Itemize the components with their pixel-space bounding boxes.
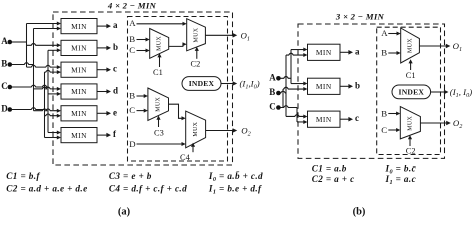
svg-text:A: A <box>129 18 136 28</box>
output wire d <box>97 89 111 94</box>
select line C2 <box>195 47 199 59</box>
wire MUX C3 out to MUX C4 <box>169 104 186 120</box>
svg-text:MIN: MIN <box>71 87 87 96</box>
MIN block 2 (a) <box>61 40 97 55</box>
riser C down (b) <box>296 108 298 122</box>
svg-text:INDEX: INDEX <box>399 88 425 97</box>
svg-text:a: a <box>355 46 360 56</box>
mux U2 (b) select C2 <box>400 107 420 139</box>
svg-text:D: D <box>1 104 8 114</box>
riser A <box>26 24 28 68</box>
svg-text:4 × 2 − MIN: 4 × 2 − MIN <box>107 1 157 11</box>
svg-text:C4 = d.f + c.f + c.d: C4 = d.f + c.f + c.d <box>109 184 187 194</box>
svg-text:C: C <box>1 81 8 91</box>
MIN block 4 (a) <box>61 84 97 99</box>
svg-text:MIN: MIN <box>316 48 332 57</box>
output wire a (b) <box>340 50 353 55</box>
wire B to MUX C2 (b) <box>388 112 400 116</box>
input terminal dot A (a) <box>8 40 13 45</box>
svg-text:(b): (b) <box>353 206 366 217</box>
input terminal dot D (a) <box>8 107 13 112</box>
MIN block 6 (a) <box>61 128 97 143</box>
svg-text:d: d <box>113 86 118 96</box>
wire input D (a) <box>12 108 45 110</box>
wire A to MUX C1 (b) <box>388 32 400 36</box>
wire stub to MIN input y=83.55 (b) <box>291 82 308 86</box>
MIN block 5 (a) <box>61 106 97 121</box>
wire stub to MIN input y=28.5 <box>34 27 62 31</box>
MIN block 3 (a) <box>61 62 97 77</box>
svg-text:C1: C1 <box>153 68 163 77</box>
wire stub to MIN input y=121.95 (b) <box>297 120 308 124</box>
wire C to MUX C3 <box>137 109 148 113</box>
wire input C (a) <box>12 85 49 87</box>
wire stub to MIN input y=93.9 <box>48 92 61 96</box>
wire stub to MIN input y=50.3 <box>48 48 61 52</box>
svg-text:B: B <box>381 109 387 119</box>
svg-text:MUX: MUX <box>193 121 199 136</box>
riser B <box>33 29 35 111</box>
inner dashed box (b) <box>377 27 441 154</box>
riser B (b) <box>285 55 287 116</box>
svg-text:C: C <box>129 105 135 115</box>
svg-text:MUX: MUX <box>156 96 162 111</box>
output wire c (b) <box>340 117 353 122</box>
riser C up (b) <box>282 89 284 107</box>
svg-text:c: c <box>355 113 359 123</box>
wire stub to MIN input y=116.45 (b) <box>286 114 308 118</box>
wire O2 (b) <box>420 121 450 126</box>
wire stub to MIN input y=132.5 <box>48 131 61 135</box>
wire stub to MIN input y=55.05 (b) <box>286 53 308 57</box>
svg-text:C: C <box>129 45 135 55</box>
select line C1 <box>157 53 161 67</box>
svg-text:C3: C3 <box>154 128 164 137</box>
INDEX block (a) <box>182 77 221 91</box>
wire stub to MIN input y=89.05 (b) <box>283 87 308 91</box>
svg-text:MUX: MUX <box>157 36 163 51</box>
svg-text:C2 = a.d + a.e + d.e: C2 = a.d + a.e + d.e <box>6 184 87 194</box>
svg-text:a: a <box>113 20 118 30</box>
output wire a <box>97 24 111 29</box>
svg-text:C4: C4 <box>180 153 191 162</box>
svg-text:(a): (a) <box>118 206 131 217</box>
wire B to MUX C1 <box>137 38 150 42</box>
input terminal dot B (b) <box>276 91 281 96</box>
svg-text:B: B <box>269 87 275 97</box>
wire input A (b) <box>280 76 291 78</box>
output wire b (b) <box>340 84 353 89</box>
wire input B (b) <box>280 91 286 93</box>
svg-text:B: B <box>1 59 7 69</box>
select line C4 <box>191 143 195 153</box>
mux U1 (select C1) <box>150 29 169 59</box>
svg-text:C1 = a.b: C1 = a.b <box>312 164 347 174</box>
output wire c <box>97 67 111 72</box>
svg-text:C3 = e + b: C3 = e + b <box>109 171 152 181</box>
svg-text:C2: C2 <box>191 60 201 69</box>
wire B to MUX C3 <box>137 94 148 98</box>
select line C3 <box>156 116 160 128</box>
svg-text:MUX: MUX <box>408 116 414 131</box>
svg-text:B: B <box>381 48 387 58</box>
input terminal dot A (b) <box>276 76 281 81</box>
svg-text:B: B <box>129 34 135 44</box>
svg-text:MUX: MUX <box>407 38 413 53</box>
svg-text:MIN: MIN <box>71 44 87 53</box>
wire O2 (a) <box>206 128 238 133</box>
svg-text:C2 = a + c: C2 = a + c <box>312 174 355 184</box>
MIN block 3 (b) <box>308 111 341 127</box>
MIN block 1 (a) <box>61 19 97 34</box>
svg-text:A: A <box>1 36 8 46</box>
wire stub to MIN input y=49.55 (b) <box>291 48 308 52</box>
MIN block 1 (b) <box>308 44 341 60</box>
input terminal dot C (b) <box>276 105 281 110</box>
mux U2 (select C2) <box>187 19 206 51</box>
svg-text:MIN: MIN <box>316 82 332 91</box>
svg-text:C2: C2 <box>406 147 416 156</box>
mux U4 (select C4) <box>186 111 206 148</box>
wire index out (b) <box>431 90 449 95</box>
svg-text:A: A <box>269 73 276 83</box>
mux U1 (b) select C1 <box>401 28 420 63</box>
svg-text:MIN: MIN <box>71 131 87 140</box>
svg-text:INDEX: INDEX <box>189 79 215 88</box>
svg-text:MIN: MIN <box>71 65 87 74</box>
wire stub to MIN input y=45.3 <box>27 43 62 47</box>
input terminal dot C (a) <box>8 85 13 90</box>
svg-text:b: b <box>355 80 360 90</box>
wire stub to MIN input y=115.7 <box>45 114 62 118</box>
inner dashed box (a) <box>128 17 228 162</box>
wire stub to MIN input y=137.5 <box>45 136 62 140</box>
riser A (b) <box>290 50 292 84</box>
svg-text:e: e <box>113 107 117 117</box>
MIN block 2 (b) <box>308 78 341 94</box>
wire stub to MIN input y=88.9 <box>34 87 62 91</box>
wire O1 (b) <box>419 44 450 49</box>
svg-text:A: A <box>381 28 388 38</box>
wire A to MUX C2 <box>137 22 187 26</box>
output wire b <box>97 46 111 51</box>
wire stub to MIN input y=72.1 <box>45 70 62 74</box>
outer dashed box (a) <box>53 12 233 165</box>
svg-text:MIN: MIN <box>316 115 332 124</box>
select line C2 (b) <box>408 135 412 146</box>
wire B to MUX C1 (b) <box>388 51 400 55</box>
svg-text:C1 = b.f: C1 = b.f <box>6 171 40 181</box>
riser C <box>47 50 49 132</box>
svg-text:b: b <box>113 42 118 52</box>
wire input C (b) <box>280 106 297 108</box>
input terminal dot B (a) <box>8 62 13 67</box>
mux U3 (select C3) <box>148 88 169 121</box>
wire D to MUX C4 <box>137 142 186 146</box>
riser D <box>44 72 46 137</box>
wire stub to MIN input y=110.7 <box>34 109 62 113</box>
wire C to MUX C2 (b) <box>388 128 400 132</box>
svg-text:C: C <box>381 125 387 135</box>
svg-text:D: D <box>129 139 135 149</box>
wire stub to MIN input y=67.1 <box>27 65 62 69</box>
select line C1 (b) <box>409 59 413 70</box>
wire O1 (a) <box>205 33 237 38</box>
wire input B (a) <box>12 63 34 65</box>
wire C to MUX C1 <box>137 49 150 53</box>
svg-text:C: C <box>269 102 276 112</box>
svg-text:C1: C1 <box>406 71 416 80</box>
svg-text:B: B <box>129 90 135 100</box>
svg-text:3 × 2 − MIN: 3 × 2 − MIN <box>335 11 385 21</box>
INDEX block (b) <box>392 85 431 99</box>
svg-text:MIN: MIN <box>71 22 87 31</box>
svg-text:c: c <box>113 64 117 74</box>
output wire e <box>97 111 111 116</box>
wire index out (a) <box>221 81 237 86</box>
outer dashed box (b) <box>298 24 445 158</box>
wire MUX C1 out to MUX C2 <box>169 42 187 46</box>
wire stub to MIN input y=23.5 <box>27 22 62 26</box>
svg-text:MUX: MUX <box>193 27 199 42</box>
output wire f <box>97 133 111 138</box>
wire input A (a) <box>12 41 27 43</box>
svg-text:MIN: MIN <box>71 109 87 118</box>
